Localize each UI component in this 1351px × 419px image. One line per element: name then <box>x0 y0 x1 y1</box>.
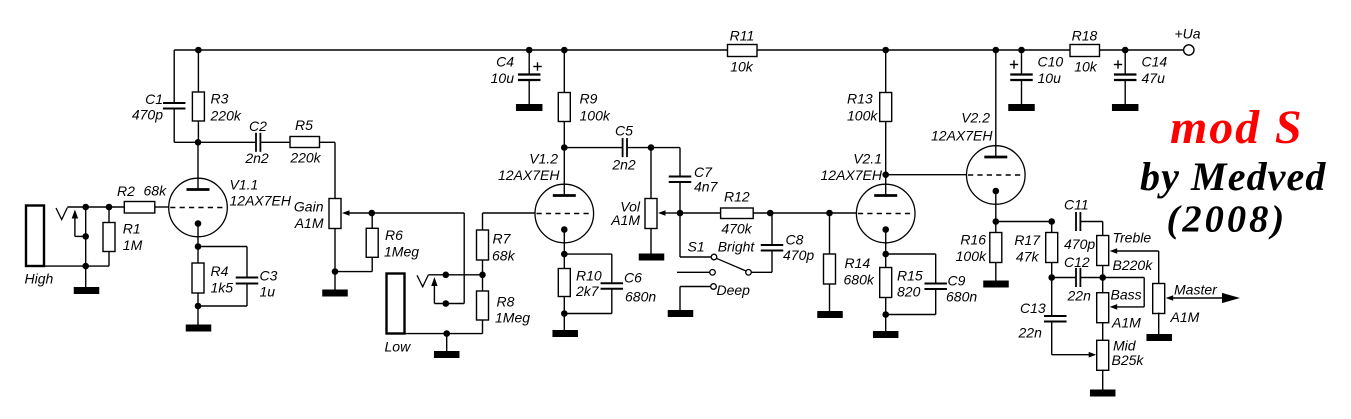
svg-text:A1M: A1M <box>294 215 324 231</box>
svg-text:C4: C4 <box>496 54 514 70</box>
svg-text:C14: C14 <box>1142 54 1168 70</box>
svg-text:V1.2: V1.2 <box>529 151 558 167</box>
svg-text:V2.1: V2.1 <box>853 151 882 167</box>
svg-text:C1: C1 <box>145 91 163 107</box>
svg-text:68k: 68k <box>144 183 168 199</box>
svg-text:R5: R5 <box>295 117 313 133</box>
svg-text:C9: C9 <box>948 273 966 289</box>
svg-text:10u: 10u <box>491 70 515 86</box>
svg-text:C2: C2 <box>249 118 267 134</box>
svg-text:Gain: Gain <box>294 199 324 215</box>
svg-text:1u: 1u <box>260 284 276 300</box>
svg-text:22n: 22n <box>1067 288 1092 304</box>
svg-text:R6: R6 <box>385 227 403 243</box>
svg-text:1M: 1M <box>123 237 143 253</box>
svg-text:100k: 100k <box>580 108 611 124</box>
svg-text:C13: C13 <box>1020 300 1046 316</box>
svg-text:470p: 470p <box>132 107 163 123</box>
svg-text:R1: R1 <box>123 221 141 237</box>
svg-text:by Medved: by Medved <box>1140 154 1326 199</box>
svg-text:100k: 100k <box>956 248 987 264</box>
svg-text:12AX7EH: 12AX7EH <box>230 193 292 209</box>
svg-text:470k: 470k <box>721 221 752 237</box>
svg-text:B25k: B25k <box>1112 352 1145 368</box>
svg-text:220k: 220k <box>210 108 242 124</box>
svg-text:C6: C6 <box>624 270 642 286</box>
svg-text:820: 820 <box>897 284 921 300</box>
svg-text:+Ua: +Ua <box>1175 26 1201 42</box>
svg-text:Treble: Treble <box>1113 230 1152 246</box>
svg-text:R7: R7 <box>493 231 512 247</box>
svg-text:C10: C10 <box>1038 54 1064 70</box>
svg-text:Bass: Bass <box>1111 287 1142 303</box>
svg-text:C12: C12 <box>1064 254 1090 270</box>
svg-text:A1M: A1M <box>1111 315 1141 331</box>
svg-text:R15: R15 <box>897 268 923 284</box>
svg-text:Deep: Deep <box>717 282 751 298</box>
svg-text:R2: R2 <box>117 183 135 199</box>
svg-text:R9: R9 <box>580 91 598 107</box>
svg-text:1Meg: 1Meg <box>384 244 419 260</box>
svg-text:R11: R11 <box>730 28 755 44</box>
svg-text:C11: C11 <box>1064 197 1089 213</box>
svg-text:S1: S1 <box>688 239 705 255</box>
svg-text:R8: R8 <box>497 294 515 310</box>
svg-text:R13: R13 <box>847 91 873 107</box>
svg-text:680n: 680n <box>625 289 656 305</box>
svg-text:R17: R17 <box>1014 232 1041 248</box>
svg-text:12AX7EH: 12AX7EH <box>931 128 993 144</box>
svg-text:Low: Low <box>385 339 412 355</box>
svg-text:1Meg: 1Meg <box>495 310 530 326</box>
svg-text:R3: R3 <box>211 91 229 107</box>
svg-text:V1.1: V1.1 <box>230 177 259 193</box>
svg-text:4n7: 4n7 <box>694 179 719 195</box>
svg-text:mod S: mod S <box>1170 101 1304 154</box>
svg-text:Bright: Bright <box>718 239 756 255</box>
svg-text:10k: 10k <box>730 59 754 75</box>
svg-text:Master: Master <box>1174 282 1218 298</box>
svg-text:100k: 100k <box>847 108 878 124</box>
svg-text:12AX7EH: 12AX7EH <box>498 167 560 183</box>
svg-text:High: High <box>25 271 54 287</box>
svg-text:10u: 10u <box>1038 70 1062 86</box>
svg-text:A1M: A1M <box>610 212 640 228</box>
svg-text:2n2: 2n2 <box>244 150 269 166</box>
svg-text:R14: R14 <box>845 255 871 271</box>
svg-text:R18: R18 <box>1072 28 1098 44</box>
svg-text:C3: C3 <box>260 268 278 284</box>
svg-text:470p: 470p <box>783 247 814 263</box>
svg-text:2k7: 2k7 <box>575 283 600 299</box>
svg-text:B220k: B220k <box>1113 257 1154 273</box>
svg-text:10k: 10k <box>1074 59 1098 75</box>
svg-text:2n2: 2n2 <box>611 157 636 173</box>
svg-text:680k: 680k <box>844 272 875 288</box>
svg-text:C5: C5 <box>615 123 633 139</box>
svg-text:A1M: A1M <box>1170 309 1200 325</box>
svg-text:R4: R4 <box>211 263 229 279</box>
svg-text:22n: 22n <box>1018 325 1043 341</box>
svg-text:C8: C8 <box>786 232 804 248</box>
svg-text:12AX7EH: 12AX7EH <box>821 167 883 183</box>
svg-text:680n: 680n <box>946 289 977 305</box>
svg-text:1k5: 1k5 <box>211 280 234 296</box>
svg-text:R16: R16 <box>960 232 986 248</box>
svg-text:47k: 47k <box>1016 249 1040 265</box>
svg-text:220k: 220k <box>289 150 321 166</box>
svg-text:68k: 68k <box>492 248 516 264</box>
svg-text:(2008): (2008) <box>1167 199 1288 241</box>
svg-text:R12: R12 <box>724 189 750 205</box>
svg-text:470p: 470p <box>1064 236 1095 252</box>
svg-text:R10: R10 <box>576 268 602 284</box>
svg-text:47u: 47u <box>1142 70 1166 86</box>
svg-text:V2.2: V2.2 <box>961 110 990 126</box>
